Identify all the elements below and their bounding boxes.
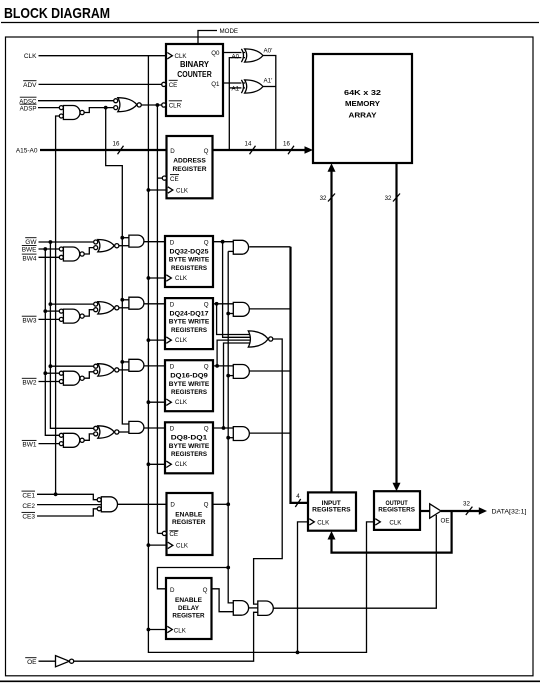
svg-text:DELAY: DELAY bbox=[178, 605, 200, 612]
gate AND4 byte-write bbox=[129, 421, 144, 433]
bus DATA output bbox=[441, 510, 480, 512]
svg-text:Q: Q bbox=[204, 301, 209, 308]
wire Q0 to XOR bbox=[223, 52, 245, 54]
wire NOR5 output path bbox=[254, 339, 283, 604]
wire row4 Q to NOR5 bbox=[224, 343, 254, 428]
gate G2 NOR (address load) bbox=[118, 98, 137, 112]
junction write row1 bbox=[120, 236, 124, 240]
junction Q row1 bbox=[221, 240, 225, 244]
svg-text:CLK: CLK bbox=[389, 519, 402, 526]
gate NOR5 byte-write detect bbox=[248, 331, 268, 347]
register U6 DQ24-DQ17 byte write bbox=[165, 298, 213, 349]
gate right AND3 bbox=[233, 365, 249, 379]
svg-text:Q: Q bbox=[204, 239, 209, 246]
bus byte-write 4-bit bbox=[291, 247, 309, 503]
svg-text:CLK: CLK bbox=[176, 543, 189, 550]
wire BW3 input bbox=[39, 318, 60, 320]
svg-text:Q: Q bbox=[204, 364, 209, 371]
xor-gate X2 bbox=[245, 80, 263, 93]
wire right AND3 enable stub bbox=[228, 375, 233, 377]
wire A0p output bbox=[263, 56, 276, 151]
wire CLR bbox=[141, 104, 162, 106]
bus width 32 (data out) bbox=[393, 194, 400, 202]
junction GW row2 bbox=[49, 302, 53, 306]
wire NOR4 to AND4 bbox=[119, 431, 129, 433]
junction CLR/load bbox=[156, 103, 160, 107]
wire A1p output bbox=[263, 86, 276, 88]
address register U4 bbox=[167, 136, 213, 198]
wire CLK trunk bbox=[148, 56, 374, 653]
svg-text:REGISTERS: REGISTERS bbox=[171, 389, 208, 396]
svg-text:Q: Q bbox=[204, 501, 209, 508]
junction enable row4 bbox=[226, 436, 230, 440]
svg-text:Q1: Q1 bbox=[211, 81, 220, 88]
wire output registers to buffer bbox=[420, 510, 430, 512]
junction BWE row1 bbox=[43, 247, 47, 251]
wire ADSC input bbox=[38, 100, 114, 102]
wire GW stub row3 bbox=[50, 365, 95, 367]
svg-text:D: D bbox=[170, 148, 175, 155]
svg-text:BYTE WRITE: BYTE WRITE bbox=[169, 443, 210, 450]
gate NAND3 byte-write bbox=[63, 371, 79, 385]
svg-text:D: D bbox=[170, 239, 175, 246]
wire write-enable stub row2 bbox=[122, 299, 129, 301]
wire input-registers CLK branch bbox=[298, 522, 309, 653]
svg-text:32: 32 bbox=[320, 195, 327, 202]
wire register row4 Q output bbox=[213, 427, 233, 429]
wire CLK stub 4 bbox=[148, 401, 165, 403]
bus width 14 bbox=[250, 146, 256, 154]
bus memory data-in bbox=[330, 170, 332, 492]
svg-text:ADV: ADV bbox=[23, 82, 37, 89]
svg-text:Q: Q bbox=[204, 148, 209, 155]
svg-text:Q: Q bbox=[204, 426, 209, 433]
bus width 16 (left) bbox=[118, 146, 124, 154]
wire CLK stub 7 bbox=[148, 629, 166, 631]
svg-text:CE3: CE3 bbox=[22, 514, 35, 521]
gate right AND2 bbox=[233, 302, 249, 316]
wire Q1 to XOR bbox=[223, 82, 245, 84]
gate G1 NAND (ADSC/ADSP) bbox=[63, 106, 80, 120]
wire A1 stub bbox=[229, 87, 245, 89]
svg-text:A1′: A1′ bbox=[264, 78, 274, 85]
wire write-enable stub row3 bbox=[122, 361, 129, 363]
gate AND7 output-enable bbox=[258, 601, 274, 615]
junction addr CLK bbox=[147, 188, 151, 192]
svg-text:CLK: CLK bbox=[176, 188, 189, 195]
bus width 32 (DATA) bbox=[466, 507, 473, 515]
junction CLK row4 bbox=[147, 462, 151, 466]
svg-text:D: D bbox=[170, 364, 175, 371]
gate NAND4 byte-write bbox=[63, 433, 79, 447]
wire CLK stub 3 bbox=[148, 339, 165, 341]
wire load trunk bbox=[156, 105, 158, 533]
wire NOR2 to AND2 bbox=[119, 307, 129, 309]
svg-text:A0: A0 bbox=[232, 53, 240, 60]
svg-text:D: D bbox=[170, 501, 175, 508]
wire gate G1 output jog bbox=[84, 108, 114, 113]
register U13 output registers bbox=[374, 491, 420, 530]
wire AND1 output to register D bbox=[144, 241, 165, 243]
svg-text:A1: A1 bbox=[232, 86, 240, 93]
wire right AND4 output to write bus bbox=[249, 432, 290, 434]
svg-text:DQ16-DQ9: DQ16-DQ9 bbox=[170, 373, 208, 380]
junction CLK row1 bbox=[147, 276, 151, 280]
junction GW row1 bbox=[49, 240, 53, 244]
memory array U11 bbox=[313, 54, 412, 163]
svg-text:Q0: Q0 bbox=[211, 50, 220, 57]
svg-text:REGISTERS: REGISTERS bbox=[171, 327, 208, 334]
gate AND2 byte-write bbox=[129, 297, 144, 309]
gate right AND1 bbox=[233, 240, 248, 254]
svg-text:MODE: MODE bbox=[220, 28, 239, 35]
wire right AND2 enable stub bbox=[228, 313, 233, 315]
svg-text:4: 4 bbox=[296, 493, 300, 500]
svg-text:OE: OE bbox=[441, 518, 450, 525]
wire write-enable stub row1 bbox=[122, 237, 129, 239]
svg-text:OE: OE bbox=[27, 659, 37, 666]
wire right AND1 enable stub bbox=[228, 250, 233, 252]
svg-text:DQ32-DQ25: DQ32-DQ25 bbox=[170, 248, 209, 255]
wire BWE trunk bbox=[45, 249, 59, 435]
gate NOR3 byte-write bbox=[98, 364, 114, 376]
svg-text:CE1: CE1 bbox=[22, 492, 35, 499]
wire CE3 input bbox=[37, 509, 97, 516]
wire register row2 Q output bbox=[213, 303, 233, 305]
xor-gate X1 bbox=[245, 49, 263, 62]
register U12 input registers bbox=[308, 492, 356, 530]
svg-text:ADDRESS: ADDRESS bbox=[173, 157, 206, 164]
svg-text:BWE: BWE bbox=[22, 247, 37, 254]
gate NOR4 byte-write bbox=[98, 426, 114, 438]
wire AND2 output to register D bbox=[144, 303, 165, 305]
register U5 DQ32-DQ25 byte write bbox=[165, 236, 213, 287]
junction GW row3 bbox=[49, 364, 53, 368]
bus width 32 (data in) bbox=[328, 194, 335, 202]
junction CLK enable delay bbox=[147, 628, 151, 632]
inverter U1 OE bbox=[56, 656, 70, 667]
arrowhead data-in into memory bbox=[328, 163, 336, 172]
gate NOR1 byte-write bbox=[98, 240, 114, 252]
wire AND4 output to register D bbox=[144, 427, 165, 429]
svg-text:GW: GW bbox=[25, 239, 37, 246]
junction enable Q bbox=[226, 502, 230, 506]
junction CLK row2 bbox=[147, 338, 151, 342]
svg-text:BYTE WRITE: BYTE WRITE bbox=[169, 319, 210, 326]
svg-text:DQ24-DQ17: DQ24-DQ17 bbox=[170, 311, 209, 318]
wire NAND2 output jog bbox=[84, 310, 94, 316]
bus data feedback to input registers bbox=[332, 511, 452, 553]
junction input regs CLK bbox=[296, 651, 300, 655]
gate right AND4 bbox=[233, 427, 249, 441]
wire GW trunk bbox=[50, 242, 95, 428]
junction Q row4 bbox=[222, 426, 226, 430]
svg-text:CLR: CLR bbox=[169, 103, 182, 110]
wire NAND1 output jog bbox=[84, 248, 94, 254]
svg-text:D: D bbox=[170, 587, 175, 594]
wire CE2 input bbox=[37, 504, 101, 506]
wire enable trunk bbox=[228, 251, 233, 603]
svg-text:MEMORY: MEMORY bbox=[345, 99, 380, 108]
wire BWE stub row3 bbox=[45, 372, 59, 374]
register U10 enable delay bbox=[166, 578, 212, 639]
register U8 DQ8-DQ1 byte write bbox=[165, 422, 213, 473]
buffer U2 output bbox=[430, 504, 441, 518]
wire row2 Q to NOR5 bbox=[217, 304, 253, 335]
wire address-register CE stub bbox=[157, 177, 164, 179]
wire enable delay Q jog bbox=[212, 589, 234, 612]
wire NAND3 output jog bbox=[84, 372, 94, 378]
wire ADV input bbox=[39, 83, 162, 85]
svg-text:CLK: CLK bbox=[175, 53, 188, 60]
svg-text:BLOCK DIAGRAM: BLOCK DIAGRAM bbox=[4, 5, 110, 22]
wire MODE bbox=[198, 31, 217, 45]
gate G8 CE NAND bbox=[101, 497, 117, 512]
svg-text:A0′: A0′ bbox=[264, 47, 274, 54]
gate AND1 byte-write bbox=[129, 235, 144, 247]
bottom page rule bbox=[0, 680, 540, 682]
wire NAND4 output jog bbox=[84, 434, 94, 440]
wire right AND3 output to write bus bbox=[249, 370, 290, 372]
svg-text:COUNTER: COUNTER bbox=[177, 70, 212, 79]
svg-text:CLK: CLK bbox=[174, 627, 187, 634]
junction BWE row3 bbox=[43, 371, 47, 375]
svg-text:CLK: CLK bbox=[317, 519, 330, 526]
wire CE1 input bbox=[37, 494, 97, 499]
svg-text:BINARY: BINARY bbox=[180, 60, 210, 69]
wire row1 Q to NOR5 bbox=[223, 242, 253, 338]
wire NOR3 to AND3 bbox=[119, 369, 129, 371]
wire CLK stub 1 bbox=[148, 189, 166, 191]
svg-text:CE2: CE2 bbox=[22, 503, 35, 510]
wire CE gate output to enable register D bbox=[118, 503, 167, 505]
gate AND6 enable-delay bbox=[233, 601, 248, 616]
svg-text:ENABLE: ENABLE bbox=[175, 512, 202, 519]
svg-text:CLK: CLK bbox=[175, 461, 188, 468]
svg-text:CLK: CLK bbox=[175, 399, 188, 406]
svg-text:CE: CE bbox=[169, 531, 178, 538]
gate NAND1 byte-write bbox=[63, 247, 79, 261]
junction CLK enable reg bbox=[147, 543, 151, 547]
arrowhead DATA output bbox=[479, 507, 487, 515]
register U9 enable bbox=[167, 493, 213, 555]
gate NOR2 byte-write bbox=[98, 302, 114, 314]
wire NOR1 to AND1 bbox=[119, 245, 129, 247]
bus memory data-out bbox=[395, 163, 397, 484]
wire CLK input bbox=[39, 55, 167, 57]
svg-text:REGISTER: REGISTER bbox=[172, 519, 206, 526]
svg-text:REGISTER: REGISTER bbox=[173, 166, 207, 173]
gate NAND2 byte-write bbox=[63, 309, 79, 323]
junction Q row2 bbox=[215, 302, 219, 306]
svg-text:CLK: CLK bbox=[175, 337, 188, 344]
wire right AND2 output to write bus bbox=[249, 308, 290, 310]
arrowhead feedback into input registers bbox=[328, 531, 336, 540]
wire write-enable trunk bbox=[106, 108, 129, 424]
bus width 4 bbox=[295, 499, 300, 507]
svg-text:14: 14 bbox=[245, 140, 252, 147]
wire enable-register CE stub bbox=[157, 532, 164, 534]
svg-text:64K x 32: 64K x 32 bbox=[344, 88, 381, 97]
svg-text:REGISTERS: REGISTERS bbox=[378, 507, 415, 514]
wire AND6 to AND7 bbox=[249, 607, 258, 609]
svg-text:CLK: CLK bbox=[24, 53, 37, 60]
junction enable row3 bbox=[226, 374, 230, 378]
svg-text:16: 16 bbox=[283, 140, 290, 147]
wire row3 Q to NOR5 bbox=[217, 340, 253, 366]
wire BWE input bbox=[39, 248, 60, 250]
wire CE1 trunk bbox=[56, 116, 60, 494]
wire GW stub row2 bbox=[50, 303, 95, 305]
title rule bbox=[1, 22, 539, 24]
junction Q row3 bbox=[215, 364, 219, 368]
bus A15-A0 bbox=[40, 149, 306, 151]
svg-text:BW1: BW1 bbox=[22, 442, 36, 449]
wire AND7 output to output buffer control bbox=[273, 515, 436, 608]
junction CE1 bbox=[54, 492, 58, 496]
arrowhead data-out into output registers bbox=[393, 483, 401, 491]
svg-text:ENABLE: ENABLE bbox=[175, 597, 202, 604]
wire AND3 output to register D bbox=[144, 365, 165, 367]
junction enable delay D bbox=[226, 566, 230, 570]
register U7 DQ16-DQ9 byte write bbox=[165, 360, 213, 411]
junction BWE row2 bbox=[43, 309, 47, 313]
svg-text:BW4: BW4 bbox=[22, 255, 36, 262]
svg-text:D: D bbox=[170, 426, 175, 433]
junction ADSC-NOR bbox=[104, 106, 108, 110]
svg-text:D: D bbox=[170, 301, 175, 308]
svg-text:CE: CE bbox=[169, 82, 178, 89]
arrowhead address into memory bbox=[305, 146, 314, 153]
wire CLK stub 5 bbox=[148, 463, 165, 465]
svg-text:ADSP: ADSP bbox=[20, 105, 37, 112]
svg-text:CLK: CLK bbox=[175, 275, 188, 282]
svg-text:32: 32 bbox=[385, 195, 392, 202]
svg-text:A15-A0: A15-A0 bbox=[16, 148, 38, 155]
wire OE input bbox=[39, 660, 56, 662]
svg-text:32: 32 bbox=[463, 500, 470, 507]
wire right AND4 enable stub bbox=[228, 437, 233, 439]
junction CLK row3 bbox=[147, 400, 151, 404]
wire OE inverted line bbox=[74, 612, 258, 661]
svg-text:Q: Q bbox=[203, 587, 208, 594]
wire CLK stub 2 bbox=[148, 277, 165, 279]
wire BW2 input bbox=[39, 381, 60, 383]
svg-text:BW3: BW3 bbox=[22, 317, 36, 324]
junction enable row2 bbox=[226, 312, 230, 316]
wire BWE stub row2 bbox=[45, 310, 59, 312]
wire enable register Q bbox=[213, 503, 229, 505]
wire right AND1 output to write bus bbox=[249, 246, 290, 248]
svg-text:REGISTERS: REGISTERS bbox=[171, 265, 208, 272]
wire register row3 Q output bbox=[213, 365, 233, 367]
svg-text:16: 16 bbox=[113, 140, 120, 147]
svg-text:REGISTER: REGISTER bbox=[172, 613, 205, 620]
wire CLK stub 6 bbox=[148, 544, 166, 546]
wire BW4 input bbox=[39, 256, 60, 258]
svg-text:BW2: BW2 bbox=[22, 380, 36, 387]
wire ADSP input bbox=[38, 107, 59, 109]
binary counter U3 bbox=[166, 44, 223, 116]
svg-text:ARRAY: ARRAY bbox=[349, 110, 377, 119]
svg-text:DQ8-DQ1: DQ8-DQ1 bbox=[171, 435, 208, 442]
gate AND3 byte-write bbox=[129, 359, 144, 371]
svg-text:REGISTERS: REGISTERS bbox=[312, 507, 351, 514]
wire register row1 Q output bbox=[213, 241, 233, 243]
wire BW1 input bbox=[39, 443, 60, 445]
bus width 16 (right) bbox=[288, 146, 294, 154]
svg-text:DATA[32:1]: DATA[32:1] bbox=[492, 509, 527, 516]
svg-text:BYTE WRITE: BYTE WRITE bbox=[169, 257, 210, 264]
svg-text:REGISTERS: REGISTERS bbox=[171, 451, 208, 458]
junction write row2 bbox=[120, 298, 124, 302]
junction write row3 bbox=[120, 360, 124, 364]
wire enable delay D branch bbox=[157, 568, 228, 589]
wire GW input bbox=[39, 241, 96, 243]
svg-text:CE: CE bbox=[170, 176, 179, 183]
wire A0/A1 feed from address bus bbox=[229, 58, 245, 150]
svg-text:BYTE WRITE: BYTE WRITE bbox=[169, 381, 210, 388]
